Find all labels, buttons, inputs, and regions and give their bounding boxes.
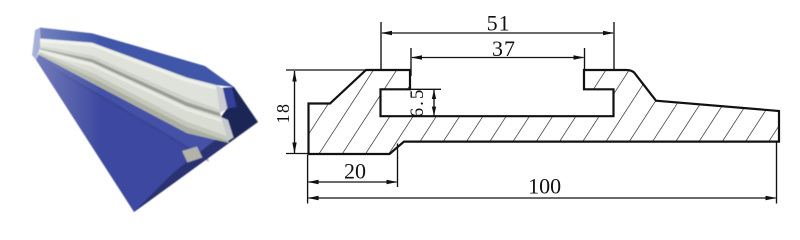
- dim 20 arrow left: [308, 180, 319, 184]
- white strip 2 highlight: [40, 50, 222, 122]
- svg-text:20: 20: [344, 159, 366, 184]
- dim 100 arrow right: [766, 196, 777, 200]
- svg-text:18: 18: [273, 103, 293, 124]
- crease line on front face: [60, 71, 209, 162]
- dim 6.5 arrow bottom: [432, 107, 436, 116]
- dim 51 arrow right: [603, 31, 614, 35]
- dim 20 extension line right: [397, 144, 399, 188]
- grey cut end of insert 2: [221, 117, 234, 141]
- dim 51 extension line right: [613, 22, 615, 70]
- blue channel wall at cut: [223, 88, 237, 109]
- grey lower strip: [39, 53, 230, 143]
- light sheen on upper front face: [39, 55, 230, 159]
- dim 100 dimension line: [309, 197, 776, 199]
- dim 100 extension line right: [776, 143, 778, 204]
- dim 6.5 dimension line: [433, 90, 435, 116]
- svg-text:100: 100: [528, 174, 561, 199]
- dim 37 extension line left: [410, 48, 412, 76]
- white insert strip 1: [40, 39, 220, 114]
- dim 37 dimension line: [412, 57, 584, 59]
- white strip 1 highlight: [40, 39, 216, 89]
- dim 37 arrow right: [574, 55, 585, 59]
- blue front face of nosing: [36, 55, 229, 213]
- dim 6.5 arrow top: [432, 90, 436, 99]
- dim 18 extension line bottom: [286, 153, 310, 155]
- dim 37 arrow left: [411, 55, 422, 59]
- dim 20 dimension line: [309, 181, 397, 183]
- dim 51 extension line left: [380, 22, 382, 70]
- dim 18 dimension line: [294, 71, 296, 153]
- dim 20 arrow right: [387, 180, 398, 184]
- dim 100 extension line left: [307, 155, 309, 204]
- dim 6.5 top tick: [410, 88, 441, 90]
- dim 51 arrow left: [381, 31, 392, 35]
- dim 18 arrow top: [292, 71, 296, 82]
- white strip 2 lower shading: [39, 52, 228, 142]
- white insert strip 2: [39, 50, 228, 142]
- dark shaded end of front face: [134, 134, 229, 212]
- profile outline with hatching: [309, 70, 780, 154]
- dark navy cut end face: [221, 87, 258, 143]
- dim 18 extension line top: [286, 69, 366, 71]
- distance blur whitening on far end: [20, 0, 115, 219]
- dim 18 arrow bottom: [292, 143, 296, 154]
- svg-text:6.5: 6.5: [407, 88, 428, 118]
- dim 37 extension line right: [584, 48, 586, 70]
- far end haze: [32, 28, 41, 61]
- blue top surface band: [40, 28, 234, 88]
- white strip 1 lower shading: [40, 46, 220, 114]
- dim 51 dimension line: [382, 32, 613, 34]
- groove shadow between inserts: [40, 48, 221, 117]
- dim 100 arrow left: [308, 196, 319, 200]
- grey cut end of insert 1: [216, 85, 228, 113]
- grey insert end tab low: [182, 147, 203, 163]
- svg-text:37: 37: [492, 36, 516, 61]
- svg-text:51: 51: [487, 10, 511, 35]
